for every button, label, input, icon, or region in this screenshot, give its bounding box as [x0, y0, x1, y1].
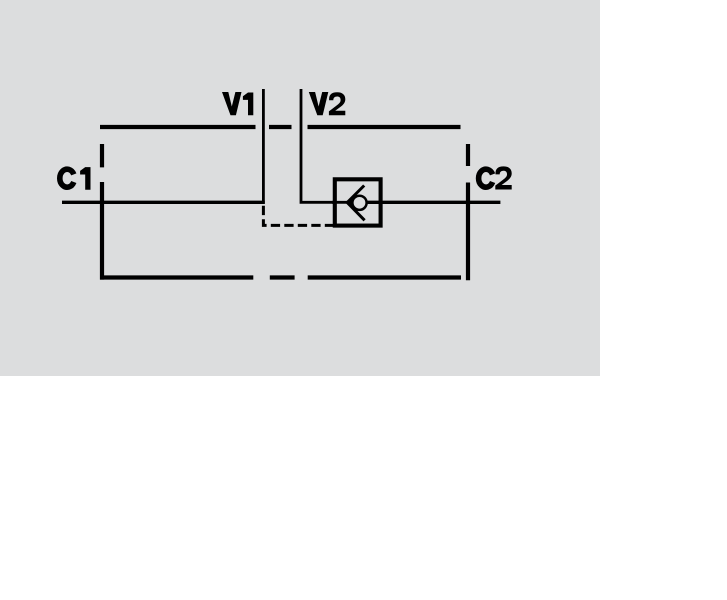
port label C1 [60, 167, 91, 190]
check valve seat wedge [347, 199, 353, 207]
wire: check valve to C2 horizontal line [367, 201, 500, 204]
check valve seat lower tangent line [347, 203, 364, 221]
port label C2 [479, 166, 512, 189]
check valve seat upper tangent line [347, 186, 364, 203]
check valve ball [352, 196, 366, 210]
check valve box [335, 179, 381, 225]
valve body envelope top border (dashed) [100, 125, 461, 129]
port label V2 [309, 92, 346, 115]
port label V1 [222, 92, 253, 115]
pilot line (dashed) from V1 junction to check valve [263, 206, 334, 226]
wire: V2 vertical line with elbow to check valve [301, 89, 334, 202]
valve body envelope right border (dashed) [466, 144, 470, 280]
valve body envelope bottom border (dashed) [100, 275, 461, 279]
wire: line into check valve seat [332, 201, 353, 204]
gray drawing panel [0, 0, 600, 376]
wire: V1 vertical line [262, 89, 265, 204]
valve body envelope left border (dashed) [100, 144, 104, 280]
wire: C1 horizontal line [62, 201, 265, 204]
